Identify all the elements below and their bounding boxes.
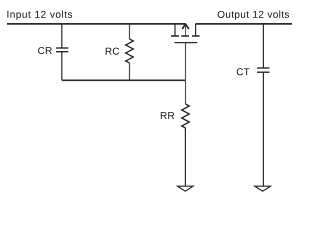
- transistor Q1 bulk arrowhead: [182, 24, 189, 29]
- wire RC upper lead: [129, 24, 131, 39]
- transistor Q1 source lead: [195, 24, 197, 36]
- transistor Q1 drain bar: [171, 35, 179, 37]
- label RC: [106, 48, 119, 55]
- wire CT upper lead: [262, 24, 264, 68]
- resistor RC: [126, 39, 134, 63]
- resistor RR: [182, 104, 190, 128]
- wire gate down to RR: [185, 43, 187, 104]
- wire CR lower lead: [61, 52, 63, 80]
- ground right: [255, 186, 271, 191]
- transistor Q1 bulk arrow shaft: [185, 26, 187, 36]
- transistor Q1 drain lead: [174, 24, 176, 36]
- label CR: [38, 47, 52, 54]
- wire RR to ground: [184, 128, 186, 186]
- wire top input rail: [7, 23, 186, 25]
- wire RC lower lead: [129, 63, 131, 80]
- capacitor CR: [56, 48, 68, 52]
- ground left: [178, 186, 193, 191]
- transistor Q1 gate bar: [175, 42, 198, 44]
- transistor Q1 bulk bar: [181, 35, 189, 37]
- wire CT to ground: [262, 72, 264, 186]
- capacitor CT: [257, 68, 270, 72]
- label RR: [161, 112, 174, 119]
- node Output label: [218, 11, 289, 20]
- node Input label: [7, 11, 72, 20]
- wire top output rail: [196, 23, 293, 25]
- transistor Q1 source bar: [192, 35, 200, 37]
- wire bottom bus CR to gate node: [62, 79, 186, 81]
- label CT: [237, 68, 250, 75]
- wire CR upper lead: [61, 24, 63, 48]
